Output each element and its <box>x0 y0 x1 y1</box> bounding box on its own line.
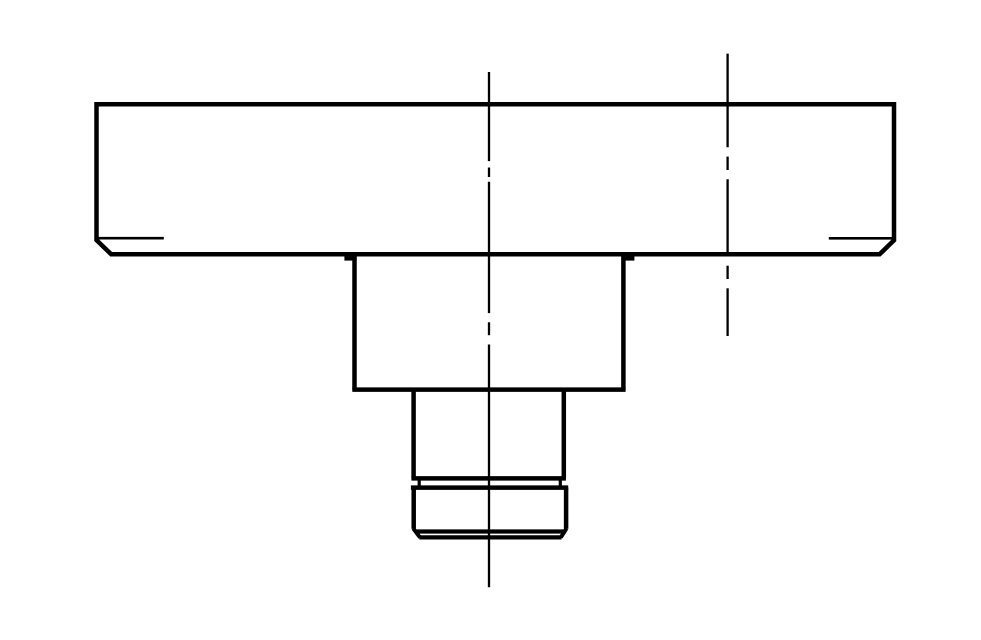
flange outline <box>97 104 895 254</box>
boss bottom edge <box>352 387 625 392</box>
bottom edge <box>419 535 561 539</box>
right vertical centerline <box>726 54 728 336</box>
groove bottom line <box>411 485 568 490</box>
groove side left <box>418 478 421 487</box>
flange chamfer line right <box>829 237 894 240</box>
main vertical centerline <box>488 72 490 587</box>
thread section right edge <box>564 488 569 529</box>
end chamfer diagonal right <box>561 528 567 537</box>
boss root step left <box>344 254 356 260</box>
thread section left edge <box>411 488 416 529</box>
boss right edge <box>621 256 626 390</box>
stem left edge <box>411 390 416 478</box>
groove top line <box>411 476 566 481</box>
end chamfer line <box>416 529 565 533</box>
groove side right <box>559 478 562 487</box>
boss left edge <box>352 256 357 390</box>
flange chamfer line left <box>98 237 164 240</box>
end chamfer diagonal left <box>413 528 420 537</box>
stem right edge <box>562 390 567 478</box>
boss root step right <box>624 254 635 260</box>
